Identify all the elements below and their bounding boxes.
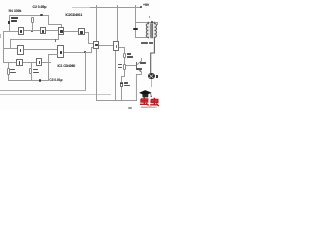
wire left corner down bbox=[8, 15, 11, 32]
label R6 1.8k bbox=[33, 69, 38, 71]
wire A2 out down bbox=[87, 32, 90, 44]
wire corner onto left ground line bbox=[0, 89, 86, 92]
label 9013 bbox=[136, 68, 143, 70]
wire feedback run left bbox=[10, 38, 59, 41]
label C2 0.05u bbox=[33, 6, 47, 9]
watermark graduation cap bbox=[0, 0, 160, 110]
wire A1 to A2 bbox=[64, 30, 78, 33]
wire faint lower line bbox=[0, 93, 111, 96]
resistor R7 body bbox=[123, 53, 126, 58]
node junction dot on top wire bbox=[40, 14, 43, 16]
label IC2 CD4011 bbox=[66, 14, 83, 17]
wire M lower input bbox=[91, 46, 93, 49]
capacitor dark blob on x135 line bbox=[133, 28, 137, 31]
label +9V bbox=[143, 4, 149, 7]
wire B2 out right bbox=[42, 61, 51, 64]
transformer body shade bbox=[147, 23, 157, 39]
label R4 330k bbox=[9, 10, 22, 13]
label C4 100u bbox=[124, 82, 128, 84]
wire divider bottom pin down bbox=[114, 51, 117, 102]
wire jog left bbox=[121, 75, 124, 78]
resistor R9 body bbox=[123, 64, 126, 70]
wire stub junction bbox=[55, 39, 56, 41]
wire left edge tick bbox=[0, 34, 2, 38]
wire left rail vertical bbox=[2, 31, 5, 63]
wire into M upper input bbox=[88, 42, 93, 45]
wire secondary bottom path bbox=[151, 37, 155, 73]
label R9 5.1k bbox=[118, 64, 122, 66]
wire C4 bottom down bbox=[120, 87, 123, 101]
wire block2 to A1 bbox=[46, 29, 58, 32]
wire A2 out right bbox=[85, 31, 89, 34]
wire R2 top stub bbox=[7, 62, 10, 68]
wire bottom left ground run bbox=[8, 79, 49, 82]
transistor VT1 strokes bbox=[0, 0, 160, 110]
wire block1 to block2 bbox=[24, 29, 40, 32]
speaker terminal mark bbox=[156, 75, 158, 78]
resistor R2 body bbox=[7, 68, 10, 75]
wire M out to divider block bbox=[99, 44, 113, 47]
transistor VT1 collector stroke bbox=[137, 58, 142, 65]
wire into B1 block bbox=[3, 61, 17, 64]
wire divider out right bbox=[119, 46, 125, 49]
watermark url text bbox=[141, 106, 157, 109]
wire A3 out to M bbox=[64, 51, 92, 54]
transformer primary winding bbox=[146, 22, 148, 38]
block M bbox=[93, 41, 99, 49]
wire +9V rail faint left part bbox=[72, 6, 92, 9]
label C1 two lines bbox=[11, 17, 18, 19]
speaker body bbox=[148, 73, 155, 80]
resistor R6 body bbox=[29, 68, 32, 75]
wire R6 bottom stub bbox=[30, 74, 33, 80]
gate A2 bbox=[78, 28, 85, 36]
label C3 0.01u bbox=[49, 79, 62, 82]
wire down from A3 out junction bbox=[84, 52, 87, 91]
transformer B windings bbox=[0, 0, 160, 110]
stray mark bottom bbox=[128, 107, 131, 109]
wire right corner down from top wire bbox=[47, 15, 50, 25]
inverter block B2 bbox=[36, 58, 42, 66]
wire mid block out to A3 bbox=[24, 48, 58, 51]
wire up into M lower input bbox=[90, 47, 93, 53]
wire drop from rail at x135 bbox=[134, 5, 137, 37]
capacitor C4 body bbox=[120, 82, 123, 87]
wire base feed to VT1 bbox=[124, 64, 136, 67]
wire right ground rail bbox=[96, 99, 137, 102]
wire transformer right stub down bbox=[156, 22, 159, 25]
transformer core lines bbox=[151, 23, 152, 38]
watermark chong char 1 bbox=[140, 97, 149, 105]
wire speaker bottom stub bbox=[150, 79, 153, 87]
label B 8ohm bbox=[141, 42, 148, 44]
wire step right bbox=[48, 23, 62, 26]
transformer secondary winding bbox=[154, 22, 156, 38]
node junction on A3 out bbox=[84, 51, 86, 53]
wire into mid block bbox=[3, 47, 17, 50]
mid inverter block bbox=[17, 45, 24, 55]
wire transformer top run bbox=[135, 21, 157, 24]
capacitor C1 plate mark bbox=[8, 21, 10, 23]
node rail end dot bbox=[140, 6, 142, 8]
wire B1 to B2 bbox=[23, 61, 36, 64]
inverter block 2 bbox=[40, 27, 46, 34]
wire drop to M top bbox=[95, 5, 98, 41]
speaker cross marks bbox=[148, 73, 155, 80]
label VT1 bbox=[140, 62, 146, 64]
label IC1 CD4060 bbox=[58, 65, 76, 68]
transistor VT1 emitter arrow bbox=[139, 70, 141, 72]
wire corner down to R7 bbox=[123, 47, 126, 54]
node dot on bottom wire bbox=[39, 79, 41, 81]
label R7 200 bbox=[127, 53, 132, 55]
gate A1 bbox=[58, 27, 65, 35]
wire R9 bottom down bbox=[123, 70, 126, 76]
label R2 25k bbox=[10, 69, 15, 71]
wire R6 top stub bbox=[30, 62, 33, 68]
gate A3 bbox=[57, 45, 64, 58]
wire tee at left to blocks bbox=[3, 30, 18, 33]
label T bbox=[149, 16, 151, 18]
node junction R4 on stage wire bbox=[31, 30, 33, 32]
wire feedback down into mid input bbox=[9, 39, 12, 49]
resistor R4 body bbox=[31, 17, 34, 24]
wire drop to divider top bbox=[116, 5, 119, 41]
wire primary bottom run bbox=[135, 36, 148, 39]
inverter block B1 bbox=[16, 59, 22, 67]
wire R2 bottom stub bbox=[7, 75, 10, 81]
node dot on transformer top bbox=[151, 21, 153, 23]
transistor VT1 base bar bbox=[136, 62, 137, 70]
wire R4 bottom stub bbox=[31, 23, 34, 31]
wire M bottom pin down bbox=[95, 49, 98, 101]
wire +9V rail bbox=[90, 6, 141, 9]
wire A3 input2 vertical riser bbox=[47, 54, 50, 63]
wire A1 bottom pin down bbox=[57, 35, 60, 40]
wire A3 input2 bbox=[48, 53, 58, 56]
wire drop to bottom wire bbox=[47, 62, 50, 81]
watermark chong char 2 bbox=[150, 98, 159, 106]
capacitor C4 plate bbox=[120, 83, 123, 84]
wire down to C4 bbox=[120, 76, 123, 83]
transistor VT1 emitter stroke bbox=[136, 68, 141, 100]
wire R7 to R9 bbox=[123, 58, 126, 64]
inverter block 1 bbox=[18, 27, 25, 34]
block divider bbox=[113, 41, 119, 51]
wire down into A1 top bbox=[60, 24, 63, 27]
wire top-left horizontal bbox=[9, 14, 49, 17]
